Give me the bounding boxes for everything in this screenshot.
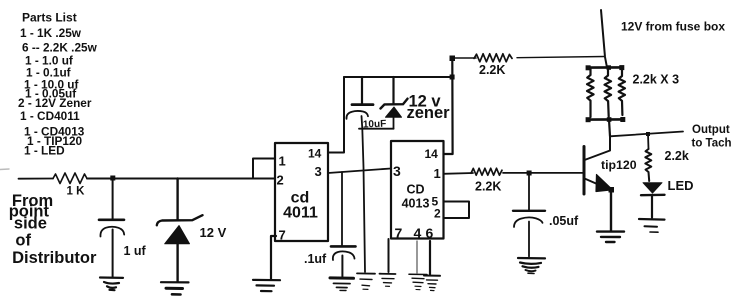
ground .1uf [330, 278, 354, 291]
svg-text:2: 2 [277, 173, 284, 188]
svg-text:2.2k: 2.2k [665, 149, 689, 163]
wire zener D2 to bus [393, 117, 395, 129]
svg-text:2.2K: 2.2K [475, 180, 501, 194]
zener D1 triangle [165, 226, 190, 244]
svg-text:12V from fuse box: 12V from fuse box [621, 20, 725, 34]
wire zener to ground [176, 244, 178, 282]
node rail right [450, 75, 455, 80]
svg-text:CD: CD [406, 183, 424, 197]
svg-text:tip120: tip120 [601, 158, 637, 172]
resistor Rc 2.2k right [619, 68, 625, 116]
wire bracket pins 5-2 of U2 [444, 202, 470, 219]
parts list [18, 11, 98, 158]
ground U2 pin7 [380, 274, 396, 287]
ground mid [357, 273, 375, 289]
capacitor C .05uf lead [528, 173, 530, 210]
wire U2 pin1 to 2.2K [444, 172, 474, 175]
resistor network bar bottom [588, 118, 624, 121]
zener D2 bar [381, 99, 408, 109]
transistor Q1 emitter [585, 179, 612, 191]
wire bus to ground [362, 129, 365, 273]
zener D2 triangle [386, 107, 402, 117]
wire U1 pin7 to ground [271, 236, 276, 280]
svg-text:1 - 1K .25w: 1 - 1K .25w [20, 26, 82, 40]
resistor Ra 2.2k left [587, 68, 594, 118]
label 12 v zener [407, 93, 451, 122]
svg-text:2: 2 [434, 207, 441, 221]
resistor R 2.2k LED [645, 149, 651, 181]
resistor R 1K [53, 173, 87, 184]
wire supply rail [344, 76, 452, 78]
ground zener D1 [161, 282, 189, 294]
capacitor C .05uf plates [513, 210, 545, 212]
wire 12V from fuse box diagonal [601, 10, 607, 68]
svg-text:4013: 4013 [402, 197, 430, 211]
node bar corners [586, 65, 626, 122]
ground 1uf [100, 278, 123, 291]
wire .1uf to ground [341, 256, 343, 277]
resistor network bar top [588, 66, 623, 69]
label From point side of Distributor [9, 192, 97, 267]
svg-text:1 - LED: 1 - LED [24, 144, 65, 158]
ground U2 pin6 [424, 276, 440, 291]
op-amp U2 CD4013 box [391, 141, 444, 239]
LED D3 triangle [643, 183, 662, 193]
label CD 4013 [402, 183, 430, 211]
capacitor C 10uf lead [361, 77, 363, 104]
wire 1uf to ground [112, 230, 114, 277]
ground .05uf [518, 258, 545, 274]
svg-text:7: 7 [279, 228, 286, 243]
svg-text:2.2k X 3: 2.2k X 3 [633, 73, 680, 87]
capacitor C 1uf lead [112, 179, 114, 220]
ground LED [639, 219, 665, 232]
svg-text:Distributor: Distributor [12, 249, 97, 267]
wire U2 pin4 to ground [416, 241, 418, 273]
svg-text:zener: zener [407, 104, 451, 122]
emitter arrow [596, 175, 613, 192]
label cd 4011 [283, 190, 318, 222]
wire base from 2.2K [503, 172, 583, 174]
node base junction [527, 171, 532, 176]
wire 2.2K to 12V line [517, 57, 605, 58]
svg-text:6: 6 [426, 225, 434, 241]
svg-text:1 - CD4011: 1 - CD4011 [20, 109, 80, 123]
svg-text:Output: Output [692, 124, 730, 136]
LED D3 bar [641, 194, 665, 197]
resistor Rb 2.2k middle [605, 68, 612, 117]
svg-text:12 V: 12 V [200, 225, 227, 240]
svg-text:6 -- 2.2K .25w: 6 -- 2.2K .25w [22, 41, 98, 55]
ground Q1 emitter [597, 232, 624, 242]
transistor Q1 base bar [583, 147, 586, 195]
wire supply down to U2 pin14 [444, 58, 453, 154]
wire U1 pin3 to U2 pin3 [328, 169, 391, 174]
stray mark left edge [0, 168, 9, 171]
zener D1 bar [157, 215, 203, 225]
wire bus zener cap [359, 128, 394, 130]
node emitter [609, 187, 615, 193]
svg-text:2.2K: 2.2K [479, 63, 505, 77]
svg-text:14: 14 [425, 147, 439, 161]
wire to cd4011 [87, 178, 275, 180]
svg-text:1 K: 1 K [67, 186, 86, 198]
op-amp U1 cd4011 box [275, 143, 328, 241]
svg-text:7: 7 [395, 225, 403, 241]
svg-text:to Tach: to Tach [692, 138, 732, 150]
wire U2 pin7 to ground [388, 239, 390, 272]
svg-text:4: 4 [414, 225, 422, 241]
svg-text:1: 1 [279, 154, 286, 169]
svg-text:Parts List: Parts List [22, 11, 77, 25]
svg-text:3: 3 [315, 164, 322, 179]
wire .05uf to ground [528, 222, 530, 257]
capacitor C 10uf plates [352, 103, 373, 106]
capacitor C .1uf lead [341, 172, 343, 246]
ground U1 pin7 [253, 280, 280, 291]
wire output to LED resistor [647, 134, 650, 149]
capacitor C .1uf plates [331, 245, 356, 248]
svg-text:of: of [15, 231, 31, 249]
wire top to 2.2K [452, 57, 476, 59]
svg-text:3: 3 [393, 163, 401, 179]
ground U2 pin4 [409, 274, 427, 290]
zener D1 12V lead [176, 179, 178, 220]
wire collector [585, 136, 611, 160]
wire emitter to ground [610, 190, 612, 231]
svg-text:1: 1 [434, 166, 441, 181]
svg-text:14: 14 [308, 147, 322, 161]
wire input from distributor [19, 178, 54, 180]
wire LED to ground [651, 195, 653, 218]
wire U2 pin6 to ground [429, 241, 431, 275]
svg-text:LED: LED [668, 178, 694, 193]
zener D2 12v lead [392, 77, 394, 104]
node junction input [110, 176, 115, 181]
svg-text:.1uf: .1uf [304, 252, 327, 266]
capacitor C 1uf plates [99, 219, 124, 222]
wire output to tach [610, 132, 683, 137]
wire network to collector node [609, 120, 610, 137]
resistor R 2.2K to base [471, 168, 502, 175]
wire 10uf to bus [361, 116, 364, 129]
svg-text:4011: 4011 [283, 205, 318, 222]
svg-text:.05uf: .05uf [549, 214, 579, 228]
wire U1 pin14 to rail [328, 77, 344, 153]
node supply top [450, 56, 456, 62]
wire bracket pins 1-2 of U1 [253, 159, 275, 179]
svg-text:side: side [14, 215, 47, 233]
resistor R 2.2K top [474, 54, 512, 62]
svg-text:1 uf: 1 uf [124, 244, 147, 258]
label Output to Tach [692, 124, 732, 150]
